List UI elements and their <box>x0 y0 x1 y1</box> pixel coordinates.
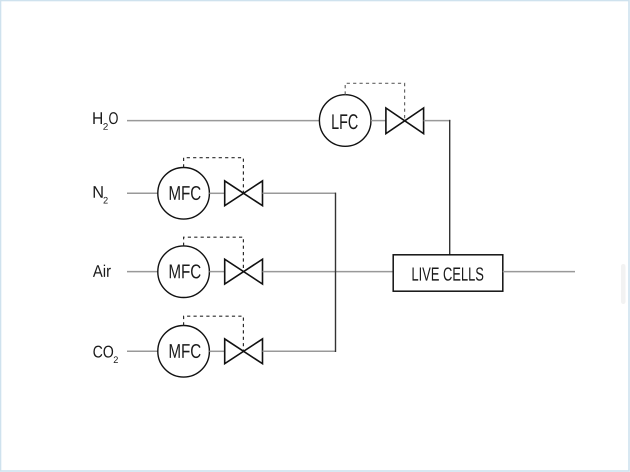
flow controller MFC2 <box>158 246 210 298</box>
control signal dashed loop MFC2 to V3 <box>184 237 244 271</box>
scrollbar smudge <box>621 264 626 304</box>
valve V2 <box>225 181 263 206</box>
valve V4 <box>225 339 263 364</box>
wire MFC2 to valve V3 <box>209 271 224 273</box>
valve V3 <box>225 259 263 284</box>
wire V1 to corner <box>424 120 451 122</box>
wire MFC3 to valve V4 <box>209 350 224 352</box>
wire outlet <box>503 271 575 273</box>
wire V3 to LIVE CELLS <box>263 271 394 273</box>
label CO2 <box>93 346 118 363</box>
wire MFC1 to valve V2 <box>209 192 224 194</box>
control signal dashed loop LFC to V1 <box>345 83 404 120</box>
label N2 <box>94 186 108 203</box>
wire down to LIVE CELLS <box>449 120 451 255</box>
control signal dashed loop MFC3 to V4 <box>184 316 244 351</box>
wire H2O feed <box>127 120 319 122</box>
wire CO2 feed <box>127 350 158 352</box>
flow controller LFC <box>319 95 371 147</box>
flow controller MFC1 <box>158 168 210 220</box>
wire manifold bus vertical <box>335 193 337 352</box>
wire LFC to valve V1 <box>371 120 386 122</box>
wire N2 feed <box>127 192 158 194</box>
flow controller MFC3 <box>158 326 210 378</box>
label Air <box>93 265 111 277</box>
chamber LIVE CELLS <box>393 255 503 291</box>
wire V4 to bus <box>263 350 337 352</box>
label H2O <box>93 112 118 130</box>
valve V1 <box>386 108 424 134</box>
wire Air feed <box>127 271 158 273</box>
control signal dashed loop MFC1 to V2 <box>184 158 244 194</box>
wire V2 to bus <box>263 192 337 194</box>
